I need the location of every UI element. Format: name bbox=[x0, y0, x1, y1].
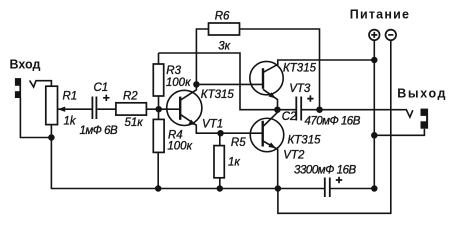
svg-text:КТ315: КТ315 bbox=[288, 135, 322, 147]
svg-text:100к: 100к bbox=[166, 77, 191, 89]
svg-text:VT1: VT1 bbox=[202, 118, 223, 130]
svg-text:100к: 100к bbox=[167, 141, 192, 153]
svg-text:C1: C1 bbox=[94, 82, 109, 94]
svg-text:R2: R2 bbox=[123, 90, 138, 102]
svg-text:Питание: Питание bbox=[350, 8, 410, 22]
svg-text:КТ315: КТ315 bbox=[201, 89, 235, 101]
svg-text:51к: 51к bbox=[125, 117, 144, 129]
svg-text:VT2: VT2 bbox=[283, 149, 305, 161]
svg-text:1к: 1к bbox=[228, 157, 240, 169]
svg-text:R3: R3 bbox=[166, 65, 181, 77]
svg-text:C2: C2 bbox=[282, 111, 297, 123]
svg-text:1мФ 6В: 1мФ 6В bbox=[80, 125, 119, 137]
svg-text:Вход: Вход bbox=[10, 57, 41, 71]
svg-text:470мФ 16В: 470мФ 16В bbox=[305, 115, 361, 127]
svg-text:3300мФ 16В: 3300мФ 16В bbox=[294, 164, 357, 176]
svg-text:R5: R5 bbox=[231, 137, 246, 149]
svg-text:КТ315: КТ315 bbox=[283, 63, 317, 75]
svg-text:VT3: VT3 bbox=[289, 83, 311, 95]
svg-text:1k: 1k bbox=[64, 116, 77, 128]
svg-text:Выход: Выход bbox=[397, 86, 447, 100]
svg-text:R1: R1 bbox=[63, 91, 78, 103]
svg-text:3к: 3к bbox=[218, 41, 230, 53]
svg-text:R6: R6 bbox=[215, 10, 230, 22]
